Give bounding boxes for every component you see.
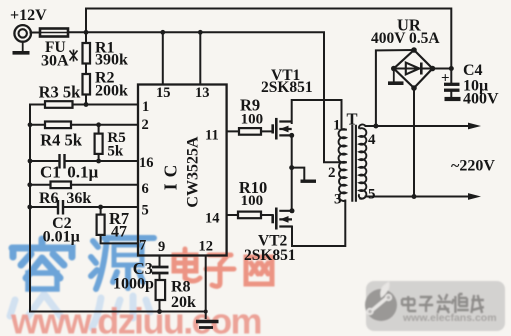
svg-text:2SK851: 2SK851: [261, 79, 313, 96]
svg-text:11: 11: [205, 128, 219, 144]
svg-text:47: 47: [111, 224, 127, 241]
svg-text:CW3525A: CW3525A: [184, 136, 201, 208]
svg-text:14: 14: [205, 211, 220, 227]
svg-text:+12V: +12V: [10, 7, 47, 24]
svg-text:4: 4: [368, 132, 376, 148]
svg-text:3: 3: [334, 192, 342, 208]
svg-text:+: +: [441, 71, 450, 87]
svg-text:5k: 5k: [107, 144, 124, 160]
svg-text:2SK851: 2SK851: [244, 247, 296, 264]
svg-text:~220V: ~220V: [451, 158, 495, 175]
svg-text:R4 5k: R4 5k: [40, 131, 83, 150]
svg-text:2: 2: [328, 165, 336, 181]
svg-text:7: 7: [139, 238, 146, 254]
svg-text:0.1µ: 0.1µ: [67, 163, 98, 182]
svg-text:1: 1: [142, 99, 149, 115]
svg-text:9: 9: [158, 239, 165, 255]
svg-text:R8: R8: [171, 279, 191, 296]
svg-text:13: 13: [195, 85, 210, 101]
svg-text:IC: IC: [161, 159, 181, 190]
svg-text:C4: C4: [463, 62, 483, 79]
svg-text:15: 15: [156, 85, 171, 101]
svg-text:R6: R6: [39, 190, 59, 207]
svg-text:6: 6: [142, 181, 149, 197]
svg-text:20k: 20k: [171, 294, 196, 311]
svg-text:www.dziuu.com: www.dziuu.com: [10, 301, 261, 336]
svg-text:36k: 36k: [66, 190, 91, 207]
svg-text:30A: 30A: [41, 53, 69, 70]
svg-text:12: 12: [199, 239, 214, 255]
svg-text:5: 5: [142, 203, 149, 219]
svg-text:T: T: [347, 110, 358, 129]
svg-text:5: 5: [368, 186, 376, 202]
svg-text:C1: C1: [40, 163, 61, 182]
svg-text:16: 16: [139, 155, 154, 171]
svg-text:1: 1: [333, 118, 341, 134]
svg-text:R3 5k: R3 5k: [39, 83, 82, 102]
svg-text:1000p: 1000p: [113, 276, 154, 293]
svg-text:400V 0.5A: 400V 0.5A: [371, 30, 440, 47]
svg-text:100: 100: [241, 112, 264, 128]
svg-text:200k: 200k: [95, 83, 128, 100]
svg-text:400V: 400V: [463, 91, 499, 108]
svg-text:100: 100: [241, 193, 264, 209]
svg-text:0.01µ: 0.01µ: [43, 229, 80, 246]
svg-text:www.elecfans.com: www.elecfans.com: [402, 312, 497, 324]
svg-text:2: 2: [142, 117, 149, 133]
svg-text:390k: 390k: [95, 52, 128, 69]
